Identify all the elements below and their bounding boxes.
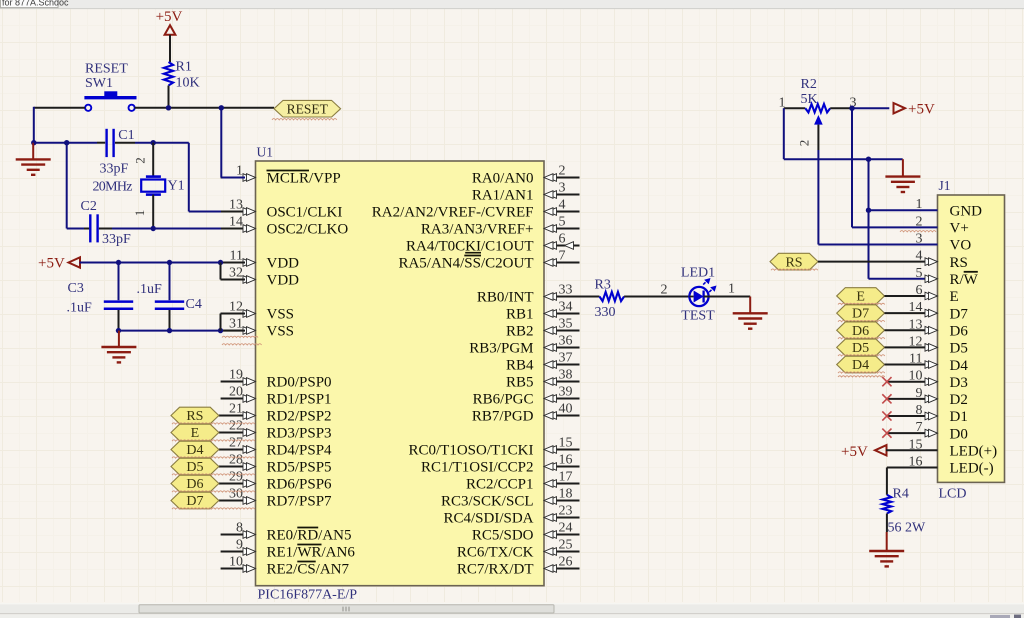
svg-text:1: 1	[236, 164, 243, 179]
svg-text:VDD: VDD	[267, 256, 300, 272]
svg-text:RC1/T1OSI/CCP2: RC1/T1OSI/CCP2	[421, 460, 534, 476]
svg-text:RS: RS	[950, 255, 968, 271]
svg-text:RB2: RB2	[506, 324, 534, 340]
svg-text:30: 30	[229, 487, 243, 502]
svg-text:D5: D5	[852, 341, 869, 356]
svg-text:E: E	[950, 289, 959, 305]
svg-text:OSC1/CLKI: OSC1/CLKI	[267, 205, 343, 221]
svg-text:33: 33	[559, 282, 573, 297]
svg-text:1: 1	[728, 282, 735, 297]
svg-text:RC0/T1OSO/T1CKI: RC0/T1OSO/T1CKI	[408, 443, 533, 459]
svg-text:5: 5	[559, 214, 566, 229]
svg-text:RC4/SDI/SDA: RC4/SDI/SDA	[443, 511, 533, 527]
svg-text:R1: R1	[176, 60, 192, 75]
svg-text:U1: U1	[257, 145, 274, 160]
svg-text:1: 1	[132, 210, 147, 217]
svg-text:34: 34	[559, 299, 573, 314]
svg-text:+5V: +5V	[908, 102, 935, 118]
svg-text:5K: 5K	[801, 92, 818, 107]
svg-text:13: 13	[229, 198, 243, 213]
svg-text:21: 21	[229, 402, 243, 417]
svg-text:35: 35	[559, 316, 573, 331]
svg-text:TEST: TEST	[681, 309, 715, 324]
svg-text:D5: D5	[950, 341, 968, 357]
svg-text:38: 38	[559, 367, 573, 382]
svg-text:VO: VO	[950, 238, 972, 254]
svg-text:23: 23	[559, 503, 573, 518]
svg-text:C1: C1	[118, 128, 134, 143]
svg-text:11: 11	[230, 249, 243, 264]
svg-text:56 2W: 56 2W	[888, 521, 927, 536]
svg-text:16: 16	[559, 452, 573, 467]
svg-text:8: 8	[236, 521, 243, 536]
svg-text:3: 3	[559, 180, 566, 195]
svg-text:D4: D4	[950, 358, 969, 374]
svg-text:+5V: +5V	[156, 9, 183, 25]
svg-text:RB6/PGC: RB6/PGC	[473, 392, 534, 408]
svg-text:RC2/CCP1: RC2/CCP1	[466, 477, 534, 493]
svg-text:D6: D6	[950, 323, 969, 339]
svg-text:Y1: Y1	[168, 179, 185, 194]
svg-text:D7: D7	[852, 307, 869, 322]
svg-text:VSS: VSS	[267, 324, 295, 340]
svg-text:32: 32	[229, 266, 243, 281]
svg-text:VSS: VSS	[267, 307, 295, 323]
svg-text:39: 39	[559, 384, 573, 399]
svg-text:2: 2	[661, 283, 668, 298]
svg-text:17: 17	[559, 469, 573, 484]
svg-text:RA3/AN3/VREF+: RA3/AN3/VREF+	[421, 222, 534, 238]
svg-text:RA5/AN4/SS/C2OUT: RA5/AN4/SS/C2OUT	[398, 256, 533, 272]
svg-text:LED(+): LED(+)	[950, 444, 998, 460]
svg-text:RD3/PSP3: RD3/PSP3	[267, 426, 332, 442]
svg-text:18: 18	[559, 486, 573, 501]
svg-text:25: 25	[559, 537, 573, 552]
svg-text:RD7/PSP7: RD7/PSP7	[267, 494, 333, 510]
svg-text:10K: 10K	[176, 76, 200, 91]
svg-text:C4: C4	[186, 297, 202, 312]
svg-text:2: 2	[559, 163, 566, 178]
svg-text:RD5/PSP5: RD5/PSP5	[267, 460, 332, 476]
svg-text:RB0/INT: RB0/INT	[477, 290, 534, 306]
svg-text:24: 24	[559, 520, 573, 535]
svg-text:RE2/CS/AN7: RE2/CS/AN7	[267, 562, 350, 578]
svg-text:RESET: RESET	[85, 62, 128, 77]
svg-text:10: 10	[229, 555, 243, 570]
svg-text:VDD: VDD	[267, 273, 300, 289]
svg-text:+5V: +5V	[38, 256, 65, 272]
svg-text:LED(-): LED(-)	[950, 461, 994, 477]
svg-text:R2: R2	[801, 77, 817, 92]
svg-text:R3: R3	[595, 278, 611, 293]
svg-text:RD2/PSP2: RD2/PSP2	[267, 409, 332, 425]
svg-text:RC7/RX/DT: RC7/RX/DT	[457, 562, 534, 578]
svg-text:RE1/WR/AN6: RE1/WR/AN6	[267, 545, 356, 561]
svg-text:LED1: LED1	[681, 266, 715, 281]
svg-text:J1: J1	[939, 178, 951, 193]
svg-text:D4: D4	[852, 358, 869, 373]
svg-text:RA2/AN2/VREF-/CVREF: RA2/AN2/VREF-/CVREF	[372, 205, 534, 221]
svg-text:LCD: LCD	[939, 487, 967, 502]
svg-text:4: 4	[559, 197, 566, 212]
svg-text:RE0/RD/AN5: RE0/RD/AN5	[267, 528, 352, 544]
svg-text:31: 31	[229, 317, 243, 332]
svg-text:RB3/PGM: RB3/PGM	[469, 341, 533, 357]
svg-text:SW1: SW1	[85, 76, 113, 91]
svg-text:D6: D6	[186, 477, 203, 492]
svg-text:RS: RS	[785, 255, 802, 270]
svg-text:C2: C2	[81, 199, 97, 214]
svg-text:for 877A.Schdoc: for 877A.Schdoc	[2, 0, 69, 7]
svg-text:RB7/PGD: RB7/PGD	[472, 409, 534, 425]
svg-text:MCLR/VPP: MCLR/VPP	[267, 171, 341, 187]
svg-text:+5V: +5V	[841, 444, 868, 460]
svg-text:2: 2	[797, 140, 812, 147]
svg-text:.1uF: .1uF	[137, 282, 163, 297]
svg-text:OSC2/CLKO: OSC2/CLKO	[267, 222, 349, 238]
svg-text:D7: D7	[186, 494, 203, 509]
svg-text:.1uF: .1uF	[67, 301, 93, 316]
svg-text:RB4: RB4	[506, 358, 534, 374]
svg-text:E: E	[856, 290, 865, 305]
svg-text:26: 26	[559, 554, 573, 569]
svg-text:29: 29	[229, 470, 243, 485]
svg-text:6: 6	[559, 231, 566, 246]
svg-text:12: 12	[229, 300, 243, 315]
svg-text:RD1/PSP1: RD1/PSP1	[267, 392, 332, 408]
svg-text:33pF: 33pF	[100, 162, 129, 177]
svg-text:V+: V+	[950, 221, 969, 237]
svg-text:RC6/TX/CK: RC6/TX/CK	[457, 545, 534, 561]
svg-text:C3: C3	[68, 281, 84, 296]
svg-text:RA0/AN0: RA0/AN0	[472, 171, 534, 187]
svg-text:20MHz: 20MHz	[93, 180, 133, 195]
svg-text:RD4/PSP4: RD4/PSP4	[267, 443, 333, 459]
svg-text:7: 7	[559, 248, 566, 263]
svg-text:D0: D0	[950, 426, 968, 442]
svg-text:9: 9	[236, 538, 243, 553]
svg-text:27: 27	[229, 436, 243, 451]
svg-text:22: 22	[229, 419, 243, 434]
svg-text:D2: D2	[950, 392, 968, 408]
svg-text:RC5/SDO: RC5/SDO	[472, 528, 534, 544]
svg-text:14: 14	[229, 215, 243, 230]
svg-text:E: E	[191, 426, 200, 441]
svg-text:330: 330	[595, 305, 616, 320]
svg-text:R4: R4	[893, 487, 909, 502]
svg-text:36: 36	[559, 333, 573, 348]
svg-text:RB1: RB1	[506, 307, 534, 323]
svg-text:28: 28	[229, 453, 243, 468]
svg-text:RA1/AN1: RA1/AN1	[472, 188, 534, 204]
svg-text:D4: D4	[186, 443, 203, 458]
svg-text:19: 19	[229, 368, 243, 383]
svg-text:D3: D3	[950, 375, 968, 391]
svg-text:RD0/PSP0: RD0/PSP0	[267, 375, 332, 391]
svg-text:20: 20	[229, 385, 243, 400]
svg-text:15: 15	[559, 435, 573, 450]
svg-text:D1: D1	[950, 409, 968, 425]
svg-text:RS: RS	[186, 409, 203, 424]
svg-text:RC3/SCK/SCL: RC3/SCK/SCL	[441, 494, 534, 510]
svg-text:R/W: R/W	[950, 272, 979, 288]
svg-text:2: 2	[133, 157, 148, 164]
svg-text:PIC16F877A-E/P: PIC16F877A-E/P	[258, 588, 358, 603]
svg-text:GND: GND	[950, 203, 983, 219]
svg-text:RESET: RESET	[287, 101, 329, 116]
svg-text:33pF: 33pF	[102, 232, 131, 247]
svg-text:D5: D5	[186, 460, 203, 475]
svg-text:40: 40	[559, 401, 573, 416]
svg-text:RD6/PSP6: RD6/PSP6	[267, 477, 333, 493]
svg-text:D6: D6	[852, 324, 869, 339]
svg-text:RB5: RB5	[506, 375, 534, 391]
svg-text:37: 37	[559, 350, 573, 365]
svg-text:D7: D7	[950, 306, 969, 322]
